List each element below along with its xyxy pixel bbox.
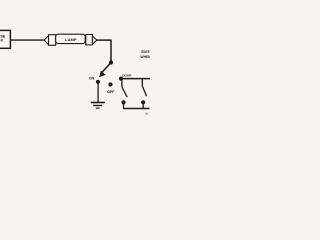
door switch 2 contact stub [142, 102, 144, 108]
door switch 1 contact stub [123, 102, 125, 108]
headlamp switch blade with arrowhead [99, 63, 111, 78]
door switch 2 [142, 79, 146, 97]
door switch 2 contact dot [141, 100, 145, 104]
small mark below rail [146, 113, 148, 115]
door switch 1 [122, 79, 127, 97]
svg-text:BOX: BOX [0, 39, 4, 43]
fuse box [0, 30, 10, 48]
ground [91, 103, 105, 109]
svg-text:ON: ON [89, 77, 95, 81]
svg-text:SWITC: SWITC [141, 50, 150, 54]
door feed rail wire [121, 78, 150, 80]
door switch 1 contact dot [121, 100, 125, 104]
wire fuse box to lamp [10, 39, 45, 41]
OFF contact dot [108, 82, 112, 86]
svg-text:DOOR: DOOR [122, 74, 132, 78]
svg-text:OFF: OFF [107, 90, 115, 94]
door feed rail dot [119, 77, 123, 81]
svg-text:LAMP: LAMP [65, 38, 77, 42]
wire lamp to switch (corner) [97, 40, 111, 62]
ON contact dot [96, 80, 100, 84]
door switches bottom rail wire [123, 108, 149, 110]
svg-text:WHEN: WHEN [140, 55, 150, 59]
lamp LAMP (festoon bulb) [44, 34, 97, 45]
note text (clipped at right edge) [140, 50, 152, 59]
junction dot at switch feed [109, 60, 113, 64]
wire ON contact to ground [97, 82, 99, 102]
